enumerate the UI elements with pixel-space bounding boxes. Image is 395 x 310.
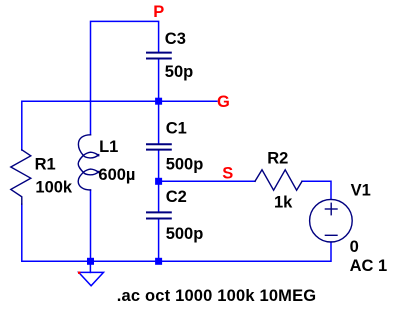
spice directive .ac [117,287,317,305]
value 100k [35,179,73,197]
wire C2 leads [158,181,160,261]
resistor R1 [11,150,31,204]
label C3 [165,30,186,48]
wire R2 to V1 top [302,181,331,199]
capacitor C2 [147,212,171,218]
svg-text:50p: 50p [165,63,193,81]
node junction S [155,178,162,185]
value 1k [274,194,293,212]
wire C1 bottom to S junction [158,150,160,182]
ground anchor dot [78,272,80,274]
svg-text:C2: C2 [166,188,187,206]
svg-text:.ac oct 1000 100k 10MEG: .ac oct 1000 100k 10MEG [117,287,317,305]
wire C3 bottom to G junction [158,59,160,102]
voltage source V1 [310,199,353,242]
value 500p C1 [166,156,204,174]
wire S horizontal to R2 [159,180,255,182]
node P label [153,3,164,21]
wire bottom rail [22,204,331,261]
inductor L1 [78,135,99,190]
label C1 [166,119,187,137]
svg-text:V1: V1 [351,181,371,199]
svg-text:100k: 100k [35,179,73,197]
node G label [217,93,230,111]
label V1 [351,181,371,199]
label R1 [35,155,56,173]
value AC 1 [350,257,388,275]
label C2 [166,188,187,206]
value 50p [165,63,193,81]
node junction C2-ground [155,258,162,265]
label L1 [99,138,118,156]
svg-text:G: G [217,93,230,111]
resistor R2 [255,170,302,190]
node junction L1-ground [87,258,94,265]
svg-text:S: S [222,165,233,183]
wire L1 bottom lead [90,190,92,261]
svg-text:600µ: 600µ [98,166,135,184]
svg-text:500p: 500p [166,225,204,243]
capacitor C1 [147,144,171,149]
svg-text:500p: 500p [166,156,204,174]
svg-text:L1: L1 [99,138,118,156]
wire top P rail [91,21,159,134]
wire C1 top lead [158,101,160,144]
wire G horizontal [22,101,217,150]
svg-text:C1: C1 [166,119,187,137]
svg-text:1k: 1k [274,194,293,212]
svg-text:R2: R2 [267,149,288,167]
svg-text:AC 1: AC 1 [350,257,388,275]
ground [79,261,104,286]
value 0 [350,238,359,256]
node S label [222,165,233,183]
value 600u [98,166,135,184]
svg-text:C3: C3 [165,30,186,48]
node junction G [155,98,162,105]
value 500p C2 [166,225,204,243]
svg-text:R1: R1 [35,155,56,173]
svg-text:P: P [153,3,164,21]
label R2 [267,149,288,167]
capacitor C3 [147,53,171,59]
svg-text:0: 0 [350,238,359,256]
